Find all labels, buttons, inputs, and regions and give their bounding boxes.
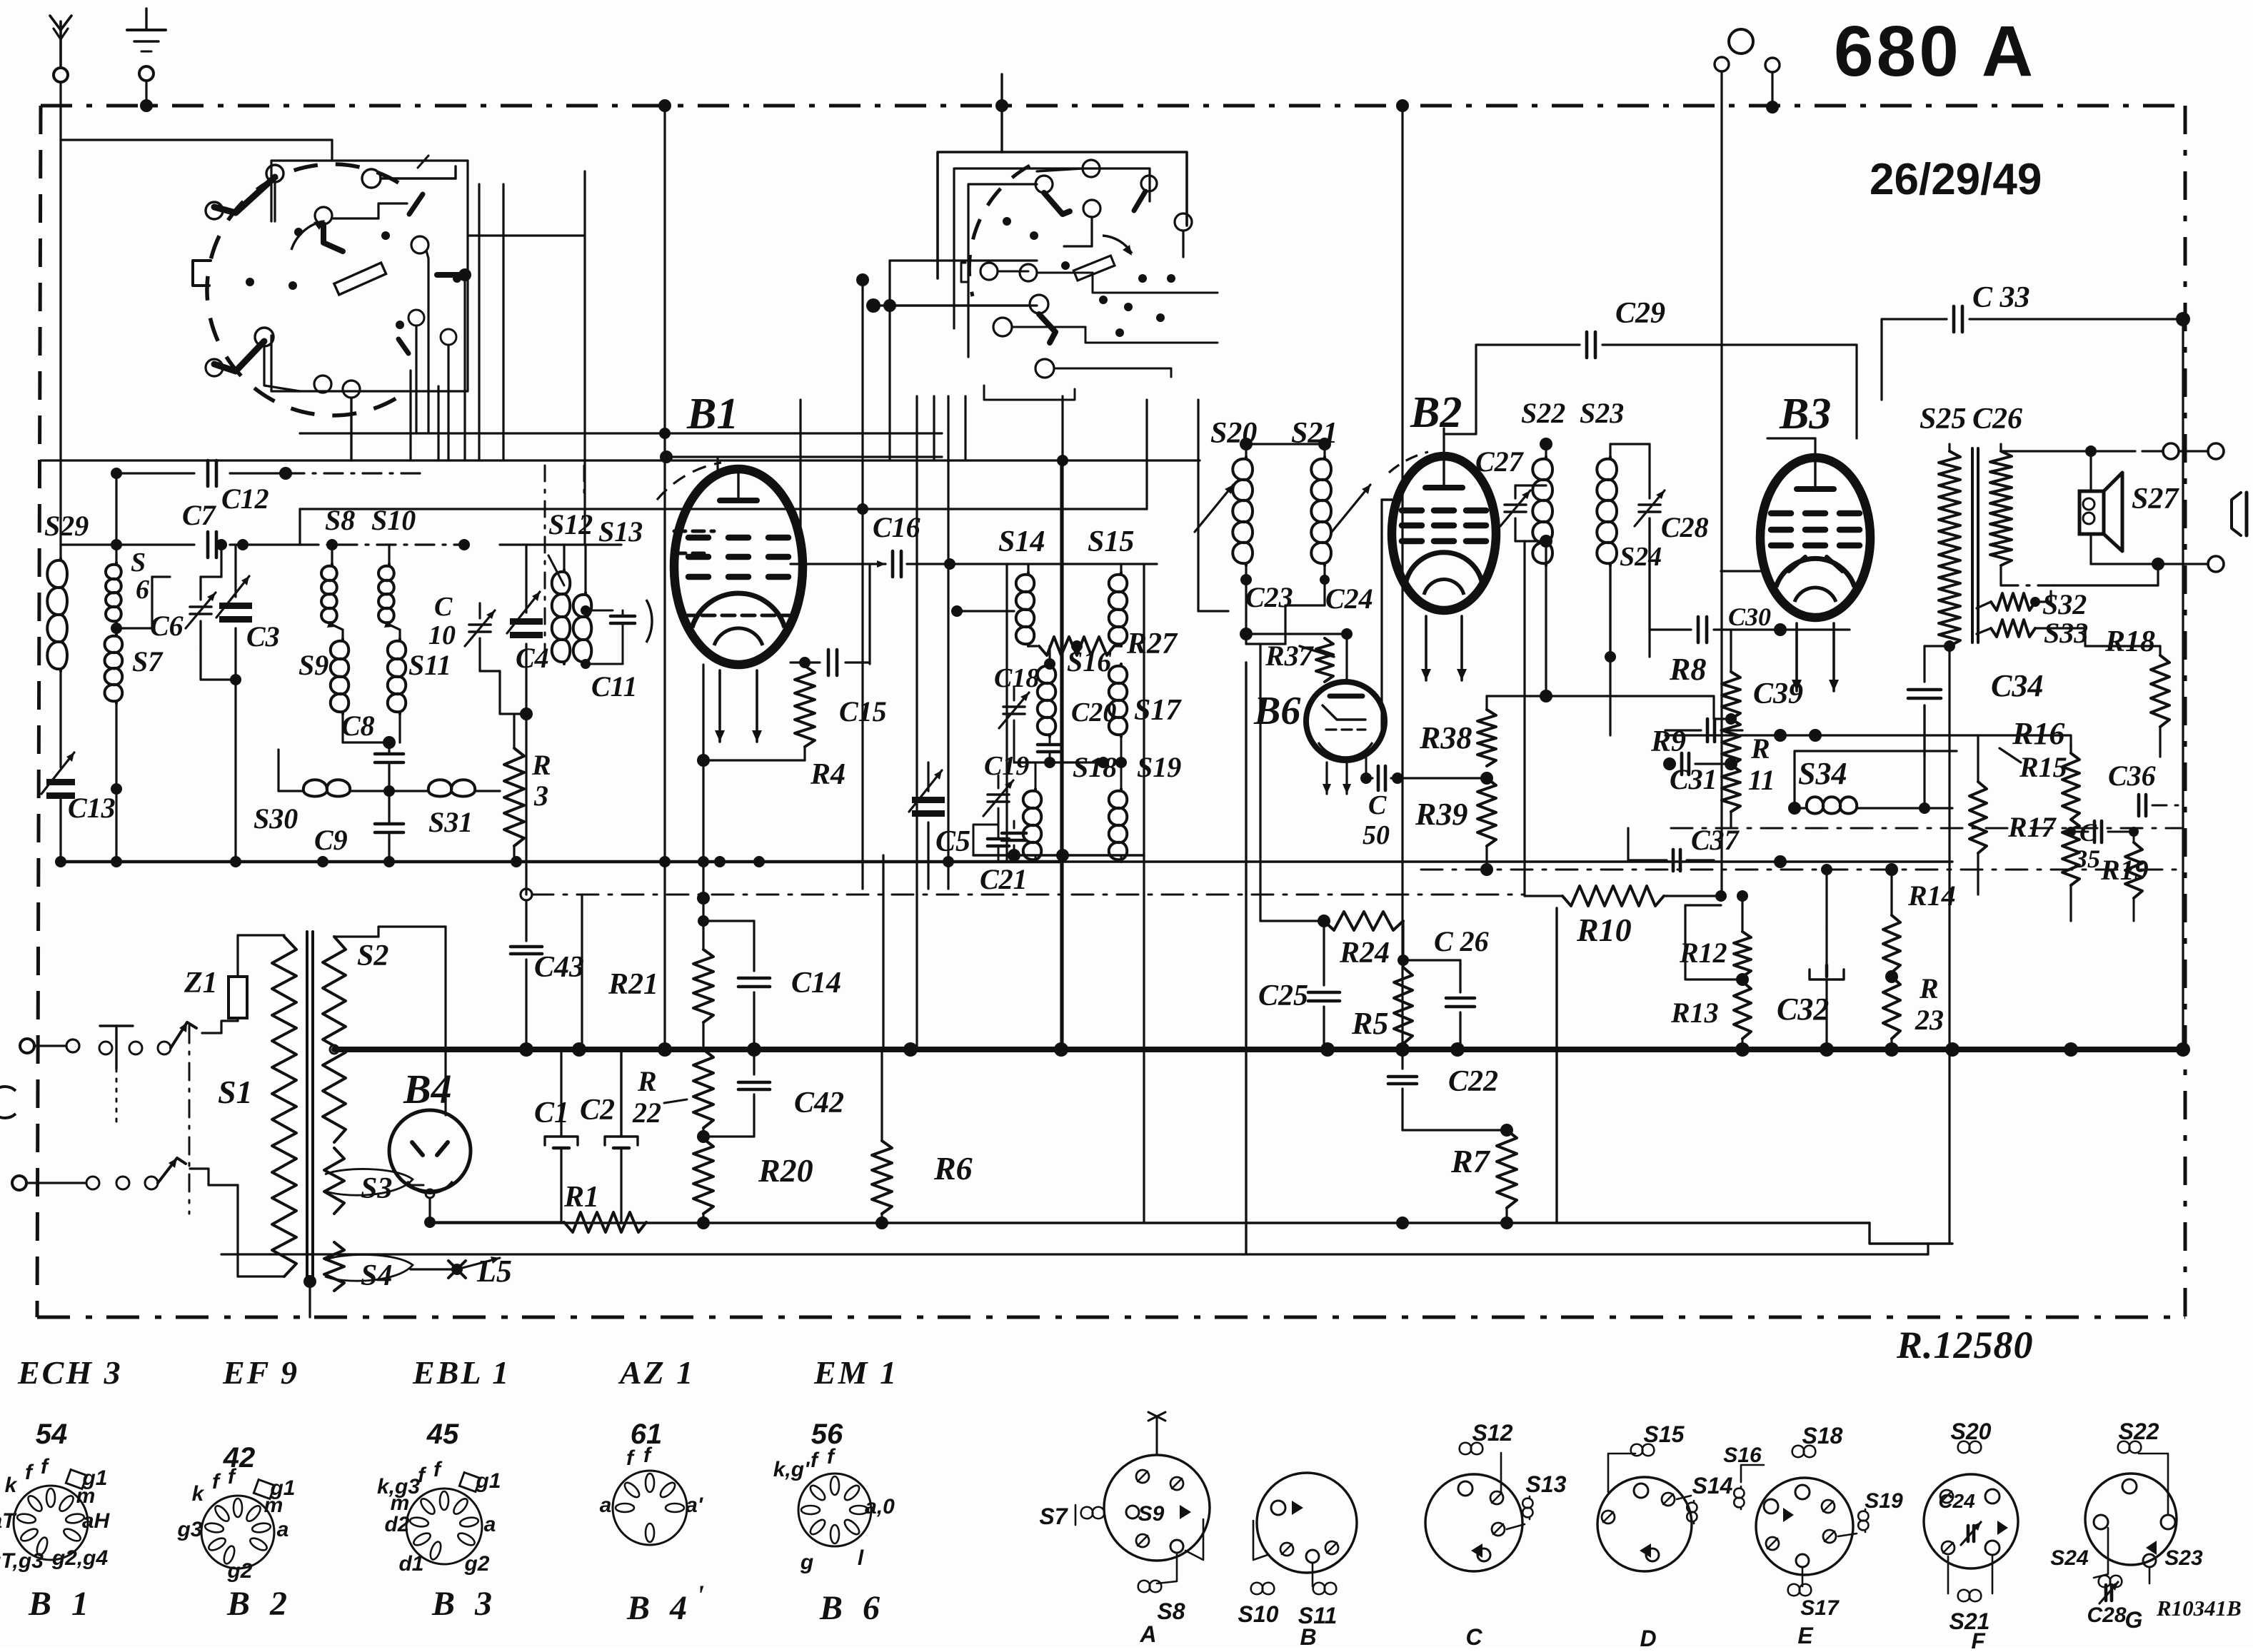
svg-text:S29: S29 bbox=[44, 510, 89, 542]
capacitor C12 bbox=[116, 472, 194, 474]
bottom return wire y1713 bbox=[430, 1222, 1870, 1224]
svg-text:S22: S22 bbox=[2119, 1419, 2159, 1444]
svg-text:C26: C26 bbox=[1972, 403, 2022, 435]
varcap C23 bbox=[1195, 485, 1233, 532]
S23 bottom feed bbox=[1609, 565, 1611, 735]
svg-text:C7: C7 bbox=[182, 499, 217, 531]
svg-text:k,g': k,g' bbox=[773, 1458, 810, 1481]
dial lower-left lever bbox=[214, 341, 264, 371]
heater return line y1207 bbox=[61, 860, 1061, 864]
svg-text:S4: S4 bbox=[361, 1259, 392, 1292]
B2 screen column x1964 bbox=[1401, 106, 1403, 1049]
dial contacts top lever bbox=[214, 177, 275, 213]
S22 frame bbox=[1515, 540, 1546, 542]
variable capacitor C5 bbox=[912, 797, 945, 803]
bottom wire y1757 bbox=[221, 1253, 1928, 1255]
wire to S13 column bbox=[468, 234, 585, 236]
svg-text:S12: S12 bbox=[548, 508, 593, 540]
svg-text:C 26: C 26 bbox=[1434, 925, 1489, 957]
switch arrow bbox=[1103, 236, 1132, 253]
dial link bar bbox=[437, 272, 458, 278]
svg-text:S18: S18 bbox=[1073, 751, 1117, 783]
svg-text:l: l bbox=[858, 1546, 864, 1570]
svg-text:R8: R8 bbox=[1669, 652, 1706, 687]
phono signal wire down to B3 grid bbox=[1720, 71, 1722, 106]
C34 lower lead bbox=[1923, 705, 1925, 808]
svg-text:R1: R1 bbox=[563, 1181, 599, 1214]
oscillator column x1121 bbox=[799, 400, 801, 564]
svg-text:R: R bbox=[637, 1065, 657, 1097]
svg-text:C: C bbox=[434, 592, 453, 622]
R12 frame bbox=[1685, 905, 1737, 979]
dial contacts bottom bbox=[314, 376, 331, 393]
svg-text:S11: S11 bbox=[408, 649, 451, 681]
svg-text:R39: R39 bbox=[1415, 797, 1467, 832]
dial pivot dots bbox=[246, 278, 254, 286]
svg-text:C39: C39 bbox=[1753, 678, 1803, 710]
B3 diode plates bbox=[1789, 557, 1805, 571]
svg-text:S7: S7 bbox=[1039, 1504, 1068, 1529]
transformer core bbox=[306, 932, 308, 1281]
chassis socket C bbox=[1425, 1474, 1522, 1571]
svg-text:C14: C14 bbox=[791, 967, 841, 999]
svg-text:B 4: B 4 bbox=[626, 1589, 693, 1627]
voltage selector T bbox=[115, 1026, 117, 1069]
svg-text:g1: g1 bbox=[475, 1469, 501, 1493]
svg-text:E: E bbox=[1797, 1623, 1814, 1648]
wire S6/S7 tap bbox=[116, 627, 152, 629]
svg-text:aT: aT bbox=[0, 1509, 17, 1533]
switch misc dots bbox=[1003, 217, 1011, 226]
svg-text:S10: S10 bbox=[1238, 1601, 1279, 1627]
x1237 column bbox=[882, 855, 884, 1049]
svg-text:C28: C28 bbox=[2087, 1603, 2126, 1627]
svg-text:11: 11 bbox=[1748, 764, 1775, 796]
output terminals bbox=[1950, 447, 2001, 448]
svg-text:C11: C11 bbox=[591, 670, 637, 702]
B4 cathode bbox=[426, 1189, 434, 1198]
svg-text:S15: S15 bbox=[1644, 1421, 1685, 1447]
svg-text:EM 1: EM 1 bbox=[813, 1354, 898, 1391]
chassis socket D bbox=[1597, 1477, 1692, 1571]
mains terminal upper bbox=[20, 1039, 34, 1053]
transformer bottom dot bbox=[303, 1275, 316, 1288]
svg-text:a,0: a,0 bbox=[865, 1495, 895, 1518]
svg-text:R: R bbox=[1750, 732, 1770, 765]
svg-text:k: k bbox=[5, 1474, 18, 1497]
dial pointer plate bbox=[334, 263, 386, 295]
column x815 bbox=[581, 895, 583, 1049]
variable capacitor C4 bbox=[510, 618, 543, 625]
wires around R15 R17 bbox=[2069, 885, 2072, 921]
svg-text:R: R bbox=[531, 749, 551, 781]
svg-text:C13: C13 bbox=[68, 792, 116, 824]
svg-text:g: g bbox=[800, 1551, 813, 1574]
switch S1 lever upper bbox=[171, 1022, 196, 1048]
switch contact row3 bbox=[1030, 295, 1048, 313]
svg-text:ECH 3: ECH 3 bbox=[17, 1354, 123, 1391]
svg-text:B1: B1 bbox=[686, 390, 738, 438]
wire y640 bbox=[666, 455, 942, 458]
svg-text:C34: C34 bbox=[1991, 668, 2043, 703]
svg-text:C27: C27 bbox=[1475, 445, 1525, 478]
tube B4 AZ1 rectifier bbox=[389, 1110, 471, 1192]
speaker bottom line bbox=[2091, 563, 2208, 565]
svg-text:R18: R18 bbox=[2104, 625, 2155, 658]
svg-text:R13: R13 bbox=[1670, 997, 1719, 1029]
svg-text:m: m bbox=[264, 1494, 283, 1517]
svg-text:R: R bbox=[1919, 972, 1939, 1004]
dial tick lines bbox=[418, 156, 428, 168]
svg-text:B3: B3 bbox=[1779, 390, 1831, 438]
svg-text:54: 54 bbox=[36, 1419, 68, 1450]
svg-text:23: 23 bbox=[1915, 1004, 1944, 1036]
R39 ground column bbox=[1555, 908, 1557, 1223]
svg-text:S32: S32 bbox=[2042, 588, 2087, 620]
chassis socket A bbox=[1104, 1455, 1210, 1561]
S2 tap to bus bbox=[330, 1045, 338, 1054]
variable capacitor C13 bbox=[46, 779, 75, 785]
svg-text:d1: d1 bbox=[398, 1552, 423, 1576]
svg-text:k: k bbox=[192, 1482, 205, 1506]
x1486 column bbox=[1060, 460, 1062, 1049]
B3 grid lead left bbox=[1721, 570, 1760, 572]
switch contact c5 bbox=[1175, 213, 1192, 231]
svg-text:R9: R9 bbox=[1650, 725, 1686, 758]
B1 anode top lead bbox=[716, 457, 718, 469]
dial arrow bbox=[291, 221, 323, 250]
dial1 bottom feeds bbox=[350, 398, 352, 460]
svg-text:C43: C43 bbox=[534, 951, 584, 984]
svg-text:C 33: C 33 bbox=[1972, 281, 2030, 314]
B2 grid-cap dashed arc bbox=[1389, 452, 1428, 473]
svg-text:a: a bbox=[484, 1513, 496, 1536]
switch contact c4 bbox=[1141, 176, 1157, 191]
svg-text:C16: C16 bbox=[873, 511, 920, 543]
chassis socket B bbox=[1257, 1473, 1357, 1573]
svg-text:a: a bbox=[277, 1518, 289, 1541]
svg-text:C: C bbox=[1368, 790, 1387, 820]
dial contact top-right bbox=[362, 169, 381, 188]
svg-text:S1: S1 bbox=[218, 1074, 253, 1110]
long wire y1030 bbox=[1665, 734, 2057, 736]
svg-text:C31: C31 bbox=[1670, 763, 1717, 795]
svg-text:B: B bbox=[1300, 1624, 1316, 1648]
S12/S13 top wire bbox=[500, 543, 621, 545]
left C curve glyph bbox=[0, 1087, 16, 1118]
dash-dot y1160 bbox=[1671, 827, 2183, 830]
svg-text:S31: S31 bbox=[428, 806, 473, 838]
svg-text:m: m bbox=[76, 1484, 96, 1508]
waveband switch assembly box bbox=[938, 152, 1187, 278]
svg-text:S15: S15 bbox=[1088, 525, 1134, 558]
svg-text:R20: R20 bbox=[758, 1152, 813, 1189]
switch contact row2 bbox=[980, 263, 998, 280]
B1 cathode column bbox=[702, 665, 704, 760]
dial right columns bbox=[463, 278, 466, 460]
solid right column x3057 bbox=[2182, 319, 2184, 1049]
svg-text:C28: C28 bbox=[1661, 511, 1709, 543]
svg-text:22: 22 bbox=[632, 1097, 661, 1129]
dial mechanism box bbox=[271, 161, 468, 391]
svg-text:B 2: B 2 bbox=[226, 1585, 293, 1623]
svg-text:S30: S30 bbox=[254, 802, 298, 835]
AVC dash-dot line y1253 bbox=[532, 894, 1525, 896]
svg-text:EF 9: EF 9 bbox=[222, 1354, 299, 1391]
svg-text:S13: S13 bbox=[1526, 1471, 1567, 1497]
svg-text:S3: S3 bbox=[361, 1172, 392, 1205]
svg-text:S22: S22 bbox=[1521, 397, 1565, 429]
B6 feed column bbox=[1259, 644, 1261, 921]
resistor R16 bbox=[1970, 782, 1987, 853]
tube B1 ECH3 bbox=[674, 469, 803, 665]
svg-text:': ' bbox=[696, 1579, 704, 1611]
svg-text:A: A bbox=[1139, 1621, 1156, 1647]
svg-text:g2,g4: g2,g4 bbox=[51, 1546, 109, 1570]
svg-text:S7: S7 bbox=[132, 645, 164, 678]
switch contact row4 bbox=[993, 318, 1012, 336]
S20 ground column bbox=[1245, 663, 1247, 1253]
svg-text:C2: C2 bbox=[580, 1094, 615, 1127]
svg-text:F: F bbox=[1971, 1628, 1986, 1648]
switch dashed arc bbox=[969, 166, 1030, 296]
dial2 columns bbox=[915, 396, 918, 1049]
wire left column x163 down bbox=[115, 789, 117, 862]
svg-text:R.12580: R.12580 bbox=[1896, 1324, 2034, 1366]
C3/C6 frame bbox=[201, 646, 236, 680]
svg-text:D: D bbox=[1640, 1626, 1656, 1648]
IF top wire bbox=[950, 563, 1008, 565]
chassis dashed border bbox=[41, 104, 2185, 108]
switch contact row5 bbox=[1035, 359, 1054, 378]
svg-text:R10341B: R10341B bbox=[2156, 1596, 2242, 1621]
svg-text:S: S bbox=[131, 548, 146, 578]
svg-text:S27: S27 bbox=[2132, 483, 2179, 515]
chassis socket F bbox=[1924, 1474, 2018, 1568]
svg-text:R37: R37 bbox=[1265, 640, 1315, 672]
svg-text:EBL 1: EBL 1 bbox=[412, 1354, 511, 1391]
switch contact c3 bbox=[1083, 200, 1100, 217]
svg-text:C21: C21 bbox=[980, 863, 1028, 895]
svg-text:C8: C8 bbox=[341, 710, 375, 742]
svg-text:S16: S16 bbox=[1067, 645, 1111, 678]
chassis socket E bbox=[1756, 1478, 1853, 1575]
variable capacitor C3 bbox=[219, 603, 252, 609]
svg-text:45: 45 bbox=[426, 1419, 459, 1450]
svg-text:AZ 1: AZ 1 bbox=[618, 1354, 695, 1391]
B3 anode top lead bbox=[1814, 438, 1816, 458]
svg-text:m: m bbox=[391, 1491, 410, 1515]
svg-text:B 3: B 3 bbox=[431, 1585, 498, 1623]
switch contact c2 bbox=[1035, 176, 1053, 193]
S22 column down bbox=[1545, 565, 1547, 696]
wires S9/S11 bottom bbox=[341, 714, 343, 742]
svg-text:R21: R21 bbox=[608, 968, 658, 1001]
speaker right glyph bbox=[2232, 493, 2241, 535]
tuning drive mechanism (left dial) bbox=[207, 164, 398, 415]
heater line extension bbox=[1721, 860, 1952, 862]
svg-text:C29: C29 bbox=[1615, 297, 1665, 330]
svg-text:a': a' bbox=[686, 1494, 703, 1517]
B1 left wire bbox=[663, 433, 666, 1049]
mains terminal lower bbox=[12, 1176, 26, 1190]
svg-text:S24: S24 bbox=[2050, 1546, 2089, 1570]
svg-text:C36: C36 bbox=[2108, 760, 2156, 792]
svg-text:R6: R6 bbox=[933, 1150, 973, 1187]
svg-text:C24: C24 bbox=[1938, 1490, 1975, 1512]
B1 grid-cap dashed arc bbox=[657, 463, 721, 500]
svg-text:680 A: 680 A bbox=[1834, 11, 2036, 91]
S23 right wire bbox=[1609, 565, 1611, 657]
B2 anode lead bbox=[1442, 428, 1445, 456]
svg-text:S17: S17 bbox=[1800, 1596, 1840, 1620]
switch pointer plate bbox=[1073, 256, 1115, 281]
B2 grid side lead bbox=[1382, 498, 1392, 500]
svg-text:R38: R38 bbox=[1419, 720, 1472, 755]
svg-text:S13: S13 bbox=[598, 515, 643, 548]
svg-text:S23: S23 bbox=[2164, 1546, 2203, 1570]
svg-text:C20: C20 bbox=[1071, 697, 1116, 727]
svg-text:C18: C18 bbox=[994, 663, 1039, 693]
svg-text:S18: S18 bbox=[1802, 1423, 1843, 1449]
svg-text:g2: g2 bbox=[226, 1559, 252, 1583]
svg-text:C32: C32 bbox=[1777, 992, 1829, 1027]
border stub above dial2 bbox=[1000, 74, 1003, 152]
svg-text:S2: S2 bbox=[357, 940, 388, 972]
varcap C24 bbox=[1332, 485, 1370, 532]
S25 primary return bbox=[1948, 646, 1950, 1244]
svg-text:R15: R15 bbox=[2019, 751, 2067, 783]
svg-text:S34: S34 bbox=[1798, 756, 1847, 791]
S20/S21 frame wires bbox=[1245, 580, 1247, 644]
svg-text:R7: R7 bbox=[1450, 1143, 1491, 1179]
dial contact mid bbox=[315, 207, 332, 224]
svg-text:S14: S14 bbox=[1692, 1473, 1733, 1499]
C32 top feed bbox=[1825, 870, 1827, 928]
C27/AVC column bbox=[1523, 541, 1525, 896]
selector contacts bbox=[99, 1042, 112, 1054]
tube B2 EF9 bbox=[1392, 456, 1496, 610]
switch lower frame bbox=[984, 386, 1075, 400]
svg-text:C30: C30 bbox=[1728, 603, 1771, 631]
phono input terminals bbox=[1729, 29, 1753, 54]
tube B3 EBL1 bbox=[1760, 458, 1870, 618]
svg-text:C24: C24 bbox=[1325, 583, 1373, 615]
svg-text:d2: d2 bbox=[384, 1513, 409, 1536]
svg-text:Z1: Z1 bbox=[184, 967, 218, 999]
svg-text:3: 3 bbox=[533, 780, 548, 812]
svg-text:C37: C37 bbox=[1691, 824, 1740, 856]
svg-text:S33: S33 bbox=[2044, 617, 2088, 649]
svg-text:S14: S14 bbox=[998, 525, 1045, 558]
tube B6 EM1 indicator bbox=[1306, 682, 1385, 760]
wire bundle upper left bbox=[115, 473, 117, 545]
IF can frames bbox=[1007, 563, 1157, 565]
svg-text:S17: S17 bbox=[1134, 694, 1182, 727]
svg-text:a: a bbox=[600, 1494, 612, 1517]
svg-text:B2: B2 bbox=[1410, 388, 1462, 437]
svg-text:C1: C1 bbox=[534, 1097, 569, 1129]
svg-text:G: G bbox=[2125, 1607, 2143, 1633]
svg-text:aH: aH bbox=[82, 1509, 111, 1533]
left return dots on heater line bbox=[55, 856, 66, 867]
chassis socket G bbox=[2085, 1474, 2177, 1565]
wire R38 top to screens bbox=[1486, 696, 1487, 710]
svg-text:S24: S24 bbox=[1620, 542, 1662, 572]
svg-text:R24: R24 bbox=[1339, 937, 1390, 969]
svg-text:S23: S23 bbox=[1580, 397, 1624, 429]
svg-text:S12: S12 bbox=[1472, 1420, 1513, 1446]
wire from R14 tap bbox=[1827, 976, 1892, 977]
svg-text:C6: C6 bbox=[150, 610, 184, 642]
svg-text:R10: R10 bbox=[1576, 912, 1632, 948]
svg-text:C: C bbox=[1465, 1624, 1482, 1648]
svg-text:C22: C22 bbox=[1448, 1065, 1498, 1098]
tuning link paren bbox=[646, 600, 652, 643]
svg-text:B4: B4 bbox=[403, 1066, 452, 1112]
dial2 column x1208 bbox=[861, 280, 863, 889]
C28 column bbox=[1648, 518, 1650, 630]
svg-text:26/29/49: 26/29/49 bbox=[1870, 155, 2042, 204]
ground terminal bbox=[145, 9, 147, 29]
wire y713 bbox=[300, 508, 1147, 510]
svg-text:C9: C9 bbox=[314, 824, 348, 856]
svg-text:R27: R27 bbox=[1126, 628, 1178, 660]
switch link dash-dot bbox=[189, 1026, 191, 1214]
svg-text:C25: C25 bbox=[1258, 979, 1308, 1012]
svg-text:S16: S16 bbox=[1723, 1444, 1762, 1467]
B1 left column from border bbox=[663, 106, 666, 433]
switch S1 lever lower bbox=[158, 1158, 186, 1183]
capacitor C7 bbox=[61, 543, 194, 545]
svg-text:gT,g3: gT,g3 bbox=[0, 1549, 44, 1573]
svg-text:R4: R4 bbox=[810, 758, 845, 791]
svg-text:C12: C12 bbox=[221, 483, 269, 515]
secondary bottom bbox=[1999, 565, 2002, 585]
svg-text:10: 10 bbox=[428, 620, 456, 650]
wire y607 bbox=[300, 432, 942, 434]
svg-text:C3: C3 bbox=[246, 620, 280, 653]
svg-text:S8: S8 bbox=[1157, 1598, 1185, 1624]
svg-text:g2: g2 bbox=[463, 1552, 489, 1576]
svg-text:B 1: B 1 bbox=[28, 1585, 94, 1623]
B4 anode feed bbox=[444, 927, 446, 1115]
svg-text:S20: S20 bbox=[1951, 1419, 1992, 1444]
svg-text:50: 50 bbox=[1363, 820, 1390, 850]
svg-text:S19: S19 bbox=[1865, 1489, 1903, 1513]
B1 dashed grid extensions bbox=[674, 530, 714, 533]
dial right contacts bbox=[411, 236, 428, 253]
antenna terminal bbox=[59, 21, 62, 68]
svg-text:6: 6 bbox=[136, 575, 149, 605]
node on y663 line bbox=[279, 467, 292, 480]
svg-text:g3: g3 bbox=[176, 1518, 202, 1541]
svg-text:R16: R16 bbox=[2012, 716, 2064, 751]
svg-text:C42: C42 bbox=[794, 1087, 844, 1119]
wire y645 long bbox=[41, 459, 1200, 461]
svg-text:R5: R5 bbox=[1351, 1006, 1388, 1041]
svg-text:B 6: B 6 bbox=[819, 1589, 885, 1627]
capacitor C17 small bbox=[988, 837, 1009, 841]
B6 below arrows bbox=[1325, 762, 1328, 794]
svg-text:S25: S25 bbox=[1920, 403, 1966, 435]
dash-dot y1218 bbox=[1421, 869, 2183, 871]
svg-text:S9: S9 bbox=[1138, 1502, 1165, 1526]
switch contact c1 bbox=[1083, 160, 1100, 177]
svg-text:C5: C5 bbox=[935, 825, 970, 858]
wire antenna to dial box bbox=[61, 138, 332, 141]
svg-text:S9: S9 bbox=[298, 649, 328, 681]
